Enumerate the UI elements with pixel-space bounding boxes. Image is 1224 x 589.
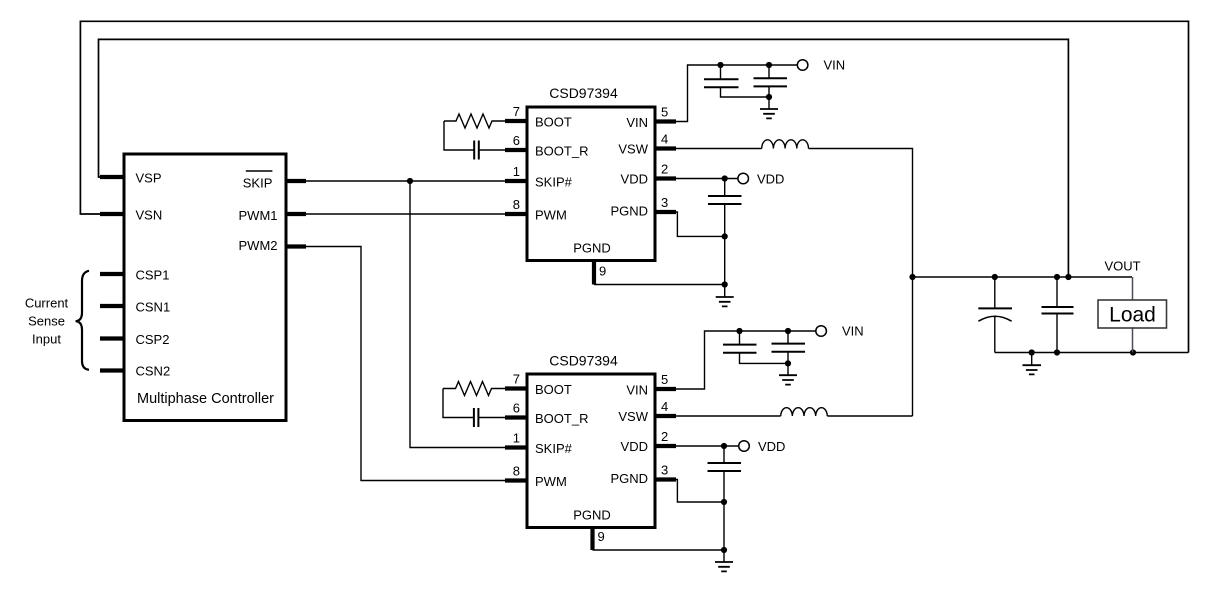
wire inductor to output node (top): [809, 149, 913, 417]
svg-text:Input: Input: [32, 332, 61, 347]
svg-text:CSN2: CSN2: [136, 364, 171, 379]
terminal VIN (top): [797, 60, 808, 71]
capacitor output C1 polarized: [994, 277, 996, 308]
svg-text:BOOT: BOOT: [535, 382, 572, 397]
capacitor VIN C1 (bottom): [739, 331, 741, 345]
wire VSW to inductor (bottom): [676, 415, 781, 417]
junction ground rail cap2: [1054, 349, 1060, 355]
junction VDD cap (bottom): [721, 443, 727, 449]
pin CSN1 stub: [100, 304, 124, 308]
ground pin9 (bottom): [723, 550, 725, 562]
svg-text:PGND: PGND: [610, 471, 648, 486]
resistor boot R (bottom): [443, 382, 505, 396]
wire boot C to pin 6 (bottom): [478, 417, 505, 419]
svg-text:VSN: VSN: [136, 208, 163, 223]
pin 8 PWM stub (bottom): [505, 478, 527, 482]
svg-text:PGND: PGND: [573, 508, 611, 523]
wire boot RC left leg (bottom): [443, 389, 474, 418]
wire output ground rail: [995, 352, 1189, 354]
svg-text:SKIP#: SKIP#: [535, 175, 573, 190]
pin 9 PGND stub (bottom): [590, 526, 594, 550]
svg-text:VDD: VDD: [621, 439, 648, 454]
svg-text:PWM: PWM: [535, 474, 567, 489]
pin 3 PGND stub (top): [655, 210, 676, 214]
pin 6 BOOT_R stub (bottom): [505, 415, 527, 419]
svg-text:PGND: PGND: [573, 241, 611, 256]
svg-text:CSP1: CSP1: [136, 268, 170, 283]
ground VIN caps (top): [768, 97, 770, 109]
svg-text:5: 5: [661, 105, 668, 120]
junction VDD cap (top): [722, 175, 728, 181]
junction ground rail gnd stub: [1029, 349, 1035, 355]
junction VIN rail cap2 (top): [766, 62, 772, 68]
terminal VIN (bottom): [816, 326, 827, 337]
pin VSN stub: [100, 212, 124, 216]
svg-text:Load: Load: [1109, 304, 1156, 327]
svg-text:VDD: VDD: [758, 439, 785, 454]
pin CSP2 stub: [100, 336, 124, 340]
capacitor VIN C2 (top): [768, 65, 770, 78]
wire load bottom lead: [1132, 328, 1134, 353]
wire load top lead: [1132, 277, 1134, 300]
pin 2 VDD stub (bottom): [655, 444, 676, 448]
junction VSW combine node: [909, 274, 915, 280]
junction PGND join (top): [722, 233, 728, 239]
ground output: [1031, 353, 1033, 366]
wire pin2 VDD (bottom): [676, 445, 739, 447]
svg-text:VIN: VIN: [626, 115, 648, 130]
svg-text:2: 2: [661, 429, 668, 444]
pin PWM1 stub: [286, 212, 306, 216]
load box: [1098, 300, 1167, 328]
junction VIN cap ground node (bottom): [785, 360, 791, 366]
junction PGND join (bottom): [721, 499, 727, 505]
junction VIN cap ground node (top): [766, 94, 772, 100]
wire VSN feedback net (controller VSN to output ground rail): [80, 21, 1188, 352]
svg-text:PGND: PGND: [610, 204, 648, 219]
wire pin9 to ground node (top): [594, 284, 725, 286]
junction ground rail load: [1130, 349, 1136, 355]
junction pin9 ground node (top): [722, 281, 728, 287]
wire VSW to inductor (top): [676, 148, 762, 150]
multiphase controller U1: [124, 154, 286, 421]
pin 4 VSW stub (top): [655, 146, 676, 150]
svg-text:BOOT: BOOT: [535, 115, 572, 130]
capacitor VDD (top): [724, 179, 726, 197]
pin SKIP stub: [286, 179, 306, 183]
wire boot RC left leg (top): [444, 121, 474, 150]
junction VOUT cap2 top: [1054, 274, 1060, 280]
pin 8 PWM stub (top): [505, 212, 527, 216]
wire PWM1 net: [290, 213, 505, 215]
pin 1 SKIP# stub (top): [505, 179, 527, 183]
svg-text:VIN: VIN: [626, 383, 648, 398]
svg-text:7: 7: [513, 104, 520, 119]
svg-text:VIN: VIN: [842, 324, 864, 339]
junction VOUT cap1 top: [992, 274, 998, 280]
junction SKIP net: [407, 178, 413, 184]
svg-text:VIN: VIN: [824, 58, 846, 73]
svg-text:3: 3: [661, 195, 668, 210]
wire PWM2 net: [290, 247, 505, 481]
svg-text:1: 1: [513, 431, 520, 446]
pin 1 SKIP# stub (bottom): [505, 445, 527, 449]
capacitor VDD (bottom): [723, 446, 725, 463]
wire VDD cap bottom to pin9 row (top): [724, 236, 726, 284]
wire inductor to output node (bottom): [827, 415, 912, 417]
pin 9 PGND stub (top): [592, 259, 596, 285]
junction VSP sense tap: [1065, 274, 1071, 280]
svg-text:4: 4: [661, 399, 668, 414]
svg-text:6: 6: [513, 133, 520, 148]
wire pin3 PGND to VDD cap bottom (bottom): [676, 480, 724, 503]
capacitor boot C (bottom): [474, 408, 479, 427]
wire VSP feedback net (controller VSP to VOUT rail): [99, 39, 1069, 277]
svg-text:BOOT_R: BOOT_R: [535, 144, 588, 159]
pin 5 VIN stub (bottom): [655, 387, 676, 391]
svg-text:8: 8: [513, 464, 520, 479]
svg-text:VOUT: VOUT: [1105, 259, 1141, 274]
brace current sense input: [76, 271, 89, 370]
junction VIN rail cap1 (top): [717, 62, 723, 68]
svg-text:Sense: Sense: [28, 314, 65, 329]
svg-text:VSW: VSW: [618, 409, 648, 424]
pin PWM2 stub: [286, 244, 306, 248]
ground VIN caps (bottom): [787, 363, 789, 375]
svg-text:VSW: VSW: [618, 142, 648, 157]
svg-text:PWM2: PWM2: [239, 238, 278, 253]
wire pin5 to VIN rail (top): [676, 65, 797, 122]
svg-text:6: 6: [513, 401, 520, 416]
capacitor output C2: [1056, 277, 1058, 307]
wire pin3 PGND to VDD cap bottom (top): [676, 212, 725, 236]
power stage CSD97394 U2 (top): [527, 107, 655, 261]
ground pin9 (top): [724, 285, 726, 298]
power stage CSD97394 U3 (bottom): [527, 374, 655, 528]
svg-text:9: 9: [599, 264, 606, 279]
pin 6 BOOT_R stub (top): [505, 148, 527, 152]
svg-text:BOOT_R: BOOT_R: [535, 411, 588, 426]
pin CSP1 stub: [100, 272, 124, 276]
resistor boot R (top): [444, 114, 505, 128]
pin 3 PGND stub (bottom): [655, 477, 676, 481]
svg-text:CSD97394: CSD97394: [549, 353, 618, 369]
wire SKIP net (controller SKIP to both SKIP# pins): [290, 181, 505, 448]
wire pin2 VDD (top): [676, 178, 738, 180]
wire boot C to pin 6 (top): [479, 149, 505, 151]
pin CSN2 stub: [100, 368, 124, 372]
svg-text:3: 3: [661, 463, 668, 478]
svg-text:SKIP#: SKIP#: [535, 441, 573, 456]
capacitor VIN C2 (bottom): [787, 331, 789, 344]
pin 2 VDD stub (top): [655, 176, 676, 180]
svg-text:CSP2: CSP2: [136, 332, 170, 347]
svg-text:2: 2: [661, 162, 668, 177]
svg-text:8: 8: [513, 197, 520, 212]
wire pin9 to ground node (bottom): [593, 549, 725, 551]
svg-text:PWM: PWM: [535, 208, 567, 223]
inductor L1 (top): [762, 140, 809, 149]
svg-text:5: 5: [661, 372, 668, 387]
junction pin9 ground node (bottom): [721, 547, 727, 553]
junction VIN rail capB (bottom): [785, 328, 791, 334]
svg-text:7: 7: [513, 372, 520, 387]
svg-text:1: 1: [513, 164, 520, 179]
pin VSP stub: [100, 175, 124, 179]
wire pin5 to VIN rail (bottom): [676, 331, 816, 389]
svg-text:VSP: VSP: [136, 171, 162, 186]
svg-text:CSN1: CSN1: [136, 300, 171, 315]
svg-text:VDD: VDD: [621, 172, 648, 187]
svg-text:CSD97394: CSD97394: [549, 85, 618, 101]
svg-text:9: 9: [598, 529, 605, 544]
inductor L2 (bottom): [781, 408, 828, 416]
capacitor boot C (top): [474, 141, 479, 160]
pin 5 VIN stub (top): [655, 119, 676, 123]
pin 7 BOOT stub (top): [505, 119, 527, 123]
terminal VDD (bottom): [739, 441, 750, 452]
svg-text:SKIP: SKIP: [243, 176, 273, 191]
wire VDD cap bottom to pin9 row (bottom): [723, 502, 725, 550]
svg-text:VDD: VDD: [757, 172, 784, 187]
svg-text:Current: Current: [25, 296, 69, 311]
capacitor VIN C1 (top): [720, 65, 722, 79]
svg-text:Multiphase Controller: Multiphase Controller: [137, 391, 274, 407]
pin 7 BOOT stub (bottom): [505, 386, 527, 390]
junction VIN rail capA (bottom): [736, 328, 742, 334]
wire VOUT rail: [913, 276, 1133, 278]
svg-text:4: 4: [661, 132, 668, 147]
svg-text:PWM1: PWM1: [239, 208, 278, 223]
pin 4 VSW stub (bottom): [655, 414, 676, 418]
terminal VDD (top): [738, 173, 749, 184]
